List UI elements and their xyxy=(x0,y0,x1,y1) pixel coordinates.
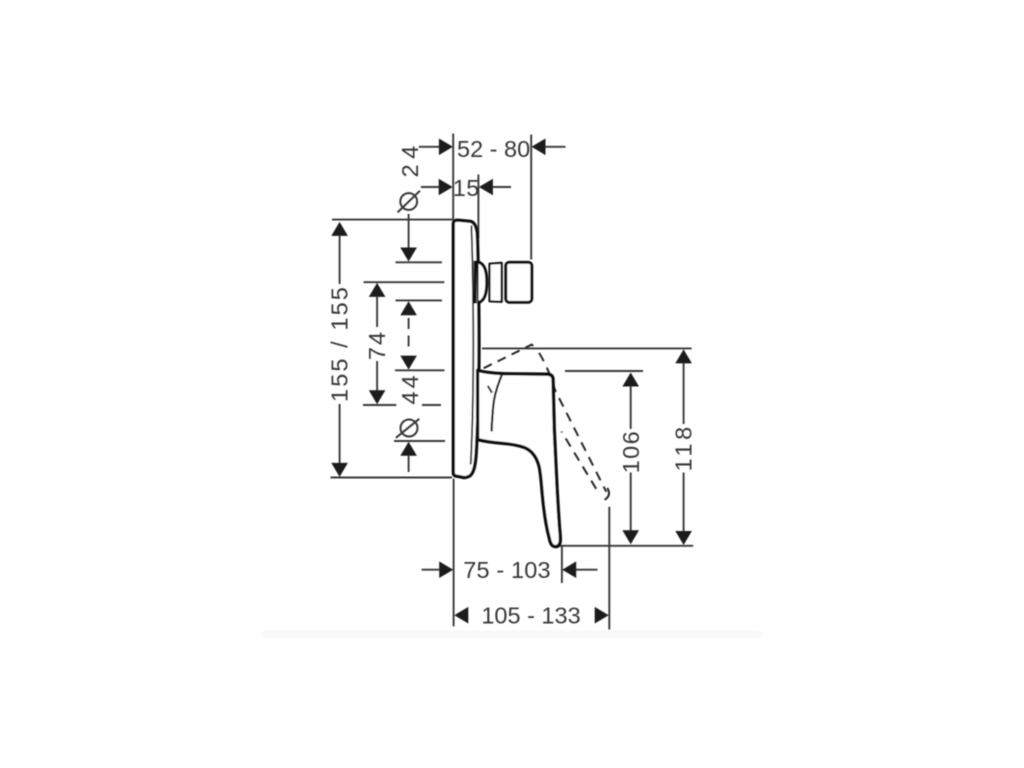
extension line plate-bottom horizontal xyxy=(331,477,453,479)
svg-text:75 - 103: 75 - 103 xyxy=(463,557,550,583)
dimension 52-80 xyxy=(419,136,566,162)
dimension Ø24 label and leader xyxy=(397,140,423,261)
extension line top-left vertical xyxy=(452,134,454,221)
dimension 105-133 xyxy=(454,603,608,629)
dashed lever alt position top edge xyxy=(481,345,536,370)
extension line plate-top horizontal xyxy=(332,219,453,221)
extension line dashed-lever-top horizontal xyxy=(482,347,692,349)
extension line lever-tip vertical xyxy=(561,547,563,584)
lever handle outline xyxy=(478,370,561,546)
extension line knob-bottom horizontal xyxy=(396,299,443,301)
extension line lever-pivot-bottom horizontal xyxy=(394,440,445,442)
svg-text:105 - 133: 105 - 133 xyxy=(481,603,580,629)
extension line knob-top horizontal xyxy=(396,261,443,263)
extension line lever-top horizontal xyxy=(565,370,643,372)
extension line lever-tip horizontal xyxy=(559,545,693,547)
dashed lever alt position right edge (hidden part behind lever) xyxy=(536,348,606,492)
svg-text:118: 118 xyxy=(671,423,697,471)
extension line dashed-tip vertical xyxy=(608,507,610,630)
faint page shadow band xyxy=(262,630,762,638)
svg-text:74: 74 xyxy=(364,330,390,360)
lever facet interior line xyxy=(492,374,503,432)
extension line plate-right vertical xyxy=(477,175,479,239)
dimension 74 xyxy=(364,283,390,404)
dimension 75-103 xyxy=(422,557,598,583)
dimension Ø24 lower arrow / Ø44 upper arrow with dashed link xyxy=(400,301,417,369)
dashed lever base dash xyxy=(488,386,492,393)
svg-text:15: 15 xyxy=(453,175,480,201)
extension line knob-center horizontal xyxy=(364,281,445,283)
svg-text:44: 44 xyxy=(397,372,423,404)
dashed lever tip hook xyxy=(605,488,609,500)
extension line knob-right vertical xyxy=(530,135,532,260)
knob neck band xyxy=(490,263,502,302)
svg-text:106: 106 xyxy=(618,430,644,473)
extension line plate-bottom vertical xyxy=(453,479,455,627)
plate edge filler at knob attachment xyxy=(474,261,477,304)
dimension 15 xyxy=(421,175,511,201)
svg-text:52 - 80: 52 - 80 xyxy=(457,136,530,162)
knob cap xyxy=(506,262,532,302)
extension line lever-pivot-top horizontal xyxy=(395,369,445,371)
dimension 118 xyxy=(671,349,697,545)
escutcheon plate outline xyxy=(453,220,479,478)
knob dome xyxy=(479,262,487,302)
svg-text:24: 24 xyxy=(397,140,423,177)
plate inner face line xyxy=(471,226,474,465)
dimension 155/155 xyxy=(327,222,353,477)
dimension Ø44 label xyxy=(396,372,423,472)
dimension 106 xyxy=(618,373,644,545)
extension line lever-pivot-center horizontal xyxy=(363,404,396,406)
svg-text:155 / 155: 155 / 155 xyxy=(327,285,353,402)
dashed lever alt position left edge xyxy=(562,432,599,493)
